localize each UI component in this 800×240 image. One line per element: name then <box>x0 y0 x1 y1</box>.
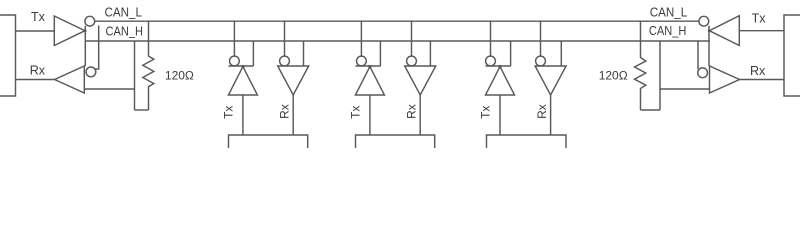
node1 Tx riser <box>233 21 235 56</box>
node2 Tx bubble <box>357 56 367 66</box>
node3 Tx bar <box>486 65 511 67</box>
wire bus CAN_L <box>95 20 699 22</box>
svg-text:CAN_L: CAN_L <box>650 6 688 20</box>
node2 Rx drop from CAN_H <box>429 41 431 66</box>
node3 Tx riser <box>490 21 492 56</box>
svg-text:Tx: Tx <box>222 106 236 119</box>
bubble right Rx <box>698 68 708 78</box>
node1 Rx bubble <box>280 56 290 66</box>
wire right Rx riser from CAN_H <box>697 41 699 69</box>
node3 Rx drop from CAN_H <box>560 41 562 66</box>
svg-text:CAN_L: CAN_L <box>105 6 143 20</box>
wire left termination bottom <box>135 109 149 111</box>
svg-text:Rx: Rx <box>278 104 292 119</box>
node1 Rx triangle <box>278 66 309 95</box>
buffer right Rx triangle <box>710 66 740 93</box>
wire left Rx riser from CAN_H <box>95 26 99 70</box>
node3 Tx lead <box>499 95 501 135</box>
svg-text:Rx: Rx <box>535 104 549 119</box>
node2 Rx lead <box>419 95 421 135</box>
node2 box <box>356 135 435 148</box>
buffer left Tx triangle <box>54 16 85 46</box>
svg-text:Tx: Tx <box>349 106 363 119</box>
wire right Tx input <box>739 30 784 32</box>
wire right termination bottom <box>641 109 661 111</box>
node junction left Tx apex <box>84 29 87 32</box>
node3 Tx bubble <box>486 56 496 66</box>
wire left Tx vertical to CAN_H <box>84 26 86 66</box>
node1 Rx riser <box>284 21 286 56</box>
node2 Tx triangle <box>355 67 384 95</box>
resistor right 120ohm <box>635 21 646 110</box>
wire left termination vertical from CAN_H <box>134 41 136 110</box>
node2 Tx apex junction <box>368 65 371 68</box>
svg-text:CAN_H: CAN_H <box>106 24 144 38</box>
node2 Tx bar <box>355 65 380 67</box>
node1 Rx drop from CAN_H <box>303 41 305 66</box>
node2 Rx bubble <box>407 56 417 66</box>
resistor left 120ohm <box>143 21 154 110</box>
wire left Tx <box>16 30 55 32</box>
node3 box <box>487 135 567 148</box>
svg-text:Rx: Rx <box>405 104 419 119</box>
wire left Rx output <box>16 79 55 81</box>
node3 Rx lead <box>550 95 552 135</box>
node1 Tx drop from CAN_H <box>252 41 254 66</box>
left node box <box>0 15 16 96</box>
node2 Tx drop from CAN_H <box>379 41 381 66</box>
node3 Tx triangle <box>486 67 515 95</box>
node2 Tx lead <box>369 95 371 135</box>
node2 Rx riser <box>411 21 413 56</box>
svg-text:Rx: Rx <box>30 64 46 78</box>
node junction right Tx apex <box>708 29 711 32</box>
node1 Tx triangle <box>228 67 257 95</box>
node1 box <box>229 135 308 148</box>
node3 Rx riser <box>540 21 542 56</box>
svg-text:Tx: Tx <box>479 106 493 119</box>
node3 Tx apex junction <box>498 65 501 68</box>
node1 Tx bar <box>228 65 253 67</box>
node3 Tx drop from CAN_H <box>510 41 512 66</box>
buffer left Rx triangle <box>55 66 85 93</box>
node1 Tx bubble <box>230 56 240 66</box>
bubble right Tx <box>699 16 709 26</box>
wire bus CAN_H <box>85 40 710 42</box>
wire right Tx vertical to CAN_H <box>708 26 710 66</box>
node2 Tx riser <box>360 21 362 56</box>
node1 Tx apex junction <box>241 65 244 68</box>
bubble left Tx <box>85 16 95 26</box>
svg-text:CAN_H: CAN_H <box>649 24 687 38</box>
svg-text:120Ω: 120Ω <box>599 69 628 83</box>
right node box <box>784 15 800 96</box>
svg-text:Tx: Tx <box>31 10 46 24</box>
wire right Rx plain input <box>660 88 710 90</box>
node1 Tx lead <box>242 95 244 135</box>
wire left Rx plain input <box>84 88 134 90</box>
svg-text:Tx: Tx <box>752 12 767 26</box>
buffer right Tx triangle <box>709 16 739 46</box>
wire right termination vertical from CAN_H <box>659 41 661 110</box>
wire right Rx output <box>740 79 785 81</box>
node2 Rx triangle <box>405 66 436 95</box>
node1 Rx lead <box>292 95 294 135</box>
svg-text:120Ω: 120Ω <box>165 68 194 82</box>
node3 Rx bubble <box>536 56 546 66</box>
svg-text:Rx: Rx <box>750 64 766 78</box>
bubble left Rx <box>86 67 96 77</box>
node3 Rx triangle <box>535 66 566 95</box>
